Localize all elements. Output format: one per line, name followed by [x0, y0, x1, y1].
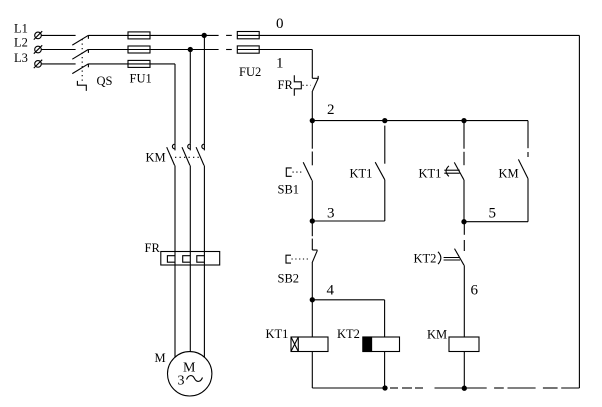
- svg-text:KT2: KT2: [414, 252, 437, 266]
- wire node3: [312, 220, 385, 222]
- pushbutton SB2: [312, 221, 317, 300]
- wire dash before FU2 line 0: [226, 34, 232, 36]
- wire phase B drop: [189, 50, 191, 144]
- wire QS to FU1 pole3: [88, 63, 128, 65]
- FR heater loop 1: [167, 252, 175, 266]
- wire L2 to QS: [41, 49, 75, 51]
- wire line 1 drop: [311, 50, 313, 79]
- svg-text:L3: L3: [14, 51, 28, 65]
- fuse FU1 pole 1: [128, 32, 150, 39]
- wire node5: [464, 221, 528, 223]
- wire node4: [312, 299, 384, 301]
- wire pole1 to FR: [174, 165, 176, 251]
- bottom bus dashes 2: [494, 387, 557, 389]
- coil KT2 wire bottom: [384, 352, 386, 389]
- svg-text:FU2: FU2: [239, 65, 261, 79]
- svg-text:KM: KM: [146, 151, 166, 165]
- motor M: [168, 352, 212, 396]
- svg-text:QS: QS: [97, 74, 113, 88]
- svg-text:0: 0: [276, 16, 284, 32]
- wire phase A drop: [203, 35, 205, 143]
- fuse FU2 pole 1: [237, 46, 259, 53]
- svg-text:FU1: FU1: [130, 71, 152, 85]
- svg-text:4: 4: [327, 283, 335, 299]
- bottom bus solid right: [561, 387, 579, 389]
- contactor KM main pole 3: [196, 144, 204, 166]
- FR heater loop 2: [183, 252, 191, 266]
- label 3~ inside: [178, 374, 203, 389]
- svg-text:KT1: KT1: [419, 167, 442, 181]
- svg-text:6: 6: [471, 283, 479, 299]
- svg-text:3: 3: [178, 374, 185, 389]
- terminal L3: [34, 60, 42, 68]
- svg-text:KM: KM: [427, 328, 447, 342]
- contactor KM main pole 1: [167, 144, 175, 166]
- svg-text:KT1: KT1: [266, 327, 289, 341]
- svg-text:SB1: SB1: [278, 183, 300, 197]
- contact KT2 delayed: [455, 222, 465, 337]
- coil KT2 wire top: [384, 300, 386, 337]
- node 3: [310, 219, 314, 223]
- contact KT1 delayed: [454, 121, 464, 222]
- wire QS to FU1 pole2: [88, 49, 128, 51]
- fuse FU1 pole 2: [128, 46, 150, 53]
- contactor KM main pole 2: [182, 144, 190, 166]
- wire FR to motor 2: [189, 265, 191, 352]
- FR contact actuator: [294, 75, 310, 96]
- svg-text:KT2: KT2: [337, 327, 360, 341]
- FR heater loop 3: [197, 252, 205, 266]
- wire L3 to QS: [41, 63, 75, 65]
- junction node2 right: [462, 119, 466, 123]
- svg-text:2: 2: [327, 102, 335, 118]
- switch QS pole 3: [72, 64, 88, 74]
- svg-text:3: 3: [327, 206, 335, 222]
- junction bottom KM: [462, 386, 466, 390]
- SB1 button actuator: [286, 168, 303, 176]
- wire QS to FU1 pole1: [88, 34, 128, 36]
- terminal L1: [34, 31, 42, 39]
- switch QS linkage: [77, 39, 86, 91]
- wire right rail: [578, 35, 580, 388]
- coil KM wire bottom: [463, 352, 465, 389]
- coil KT1 wire top: [311, 300, 313, 337]
- svg-text:FR: FR: [278, 78, 294, 92]
- wire pole2 to FR: [189, 165, 191, 251]
- svg-text:M: M: [183, 361, 196, 376]
- contact KM aux: [518, 121, 528, 222]
- KT2 delay symbol: [438, 252, 460, 264]
- junction on L1: [202, 33, 206, 37]
- contact KT1 NO: [375, 121, 385, 221]
- junction node2 left: [310, 119, 314, 123]
- thermal relay FR heater box: [161, 252, 220, 266]
- terminal L2: [34, 45, 42, 53]
- wire FU1 to node, line L1: [150, 34, 219, 36]
- node 2 bus: [312, 120, 528, 122]
- node 5: [462, 220, 466, 224]
- junction on L2: [188, 47, 192, 51]
- wire phase C drop: [174, 64, 176, 144]
- svg-text:KT1: KT1: [350, 167, 373, 181]
- wire line 1 horizontal: [259, 49, 312, 51]
- svg-text:5: 5: [489, 206, 497, 222]
- fuse FU2 pole 0: [237, 32, 259, 39]
- contactor KM linkage: [171, 156, 201, 158]
- svg-text:SB2: SB2: [278, 272, 300, 286]
- KT1 delay symbol: [444, 166, 459, 177]
- coil KT1: [291, 337, 328, 352]
- wire FR to motor 1: [174, 265, 176, 357]
- bottom bus solid left: [312, 387, 385, 389]
- svg-text:FR: FR: [145, 241, 161, 255]
- wire dash before FU2 line 1: [226, 49, 232, 51]
- wire FR to motor 3: [203, 265, 205, 357]
- svg-text:KM: KM: [499, 167, 519, 181]
- svg-text:1: 1: [276, 56, 284, 72]
- wire line 0: [259, 34, 579, 36]
- svg-text:M: M: [155, 351, 166, 365]
- SB2 button actuator: [286, 255, 311, 263]
- junction node2 mid: [383, 119, 387, 123]
- pushbutton SB1: [303, 121, 312, 221]
- switch QS pole 1: [72, 35, 88, 45]
- wire pole3 to FR: [203, 165, 205, 251]
- wire L3 to drop: [150, 63, 175, 65]
- wire FU1 to node, line L2: [150, 49, 219, 51]
- thermal contact FR: [312, 76, 318, 121]
- bottom bus dashes 1: [390, 387, 423, 389]
- coil KT2: [363, 337, 400, 352]
- coil KT1 wire bottom: [311, 352, 313, 389]
- coil KM: [449, 337, 479, 352]
- junction bottom KT2: [383, 386, 387, 390]
- svg-text:L1: L1: [14, 22, 28, 36]
- switch QS pole 2: [72, 49, 88, 59]
- fuse FU1 pole 3: [128, 60, 150, 67]
- bottom bus solid mid: [435, 387, 487, 389]
- node 4: [310, 298, 314, 302]
- wire L1 to QS: [41, 34, 75, 36]
- svg-text:L2: L2: [14, 36, 28, 50]
